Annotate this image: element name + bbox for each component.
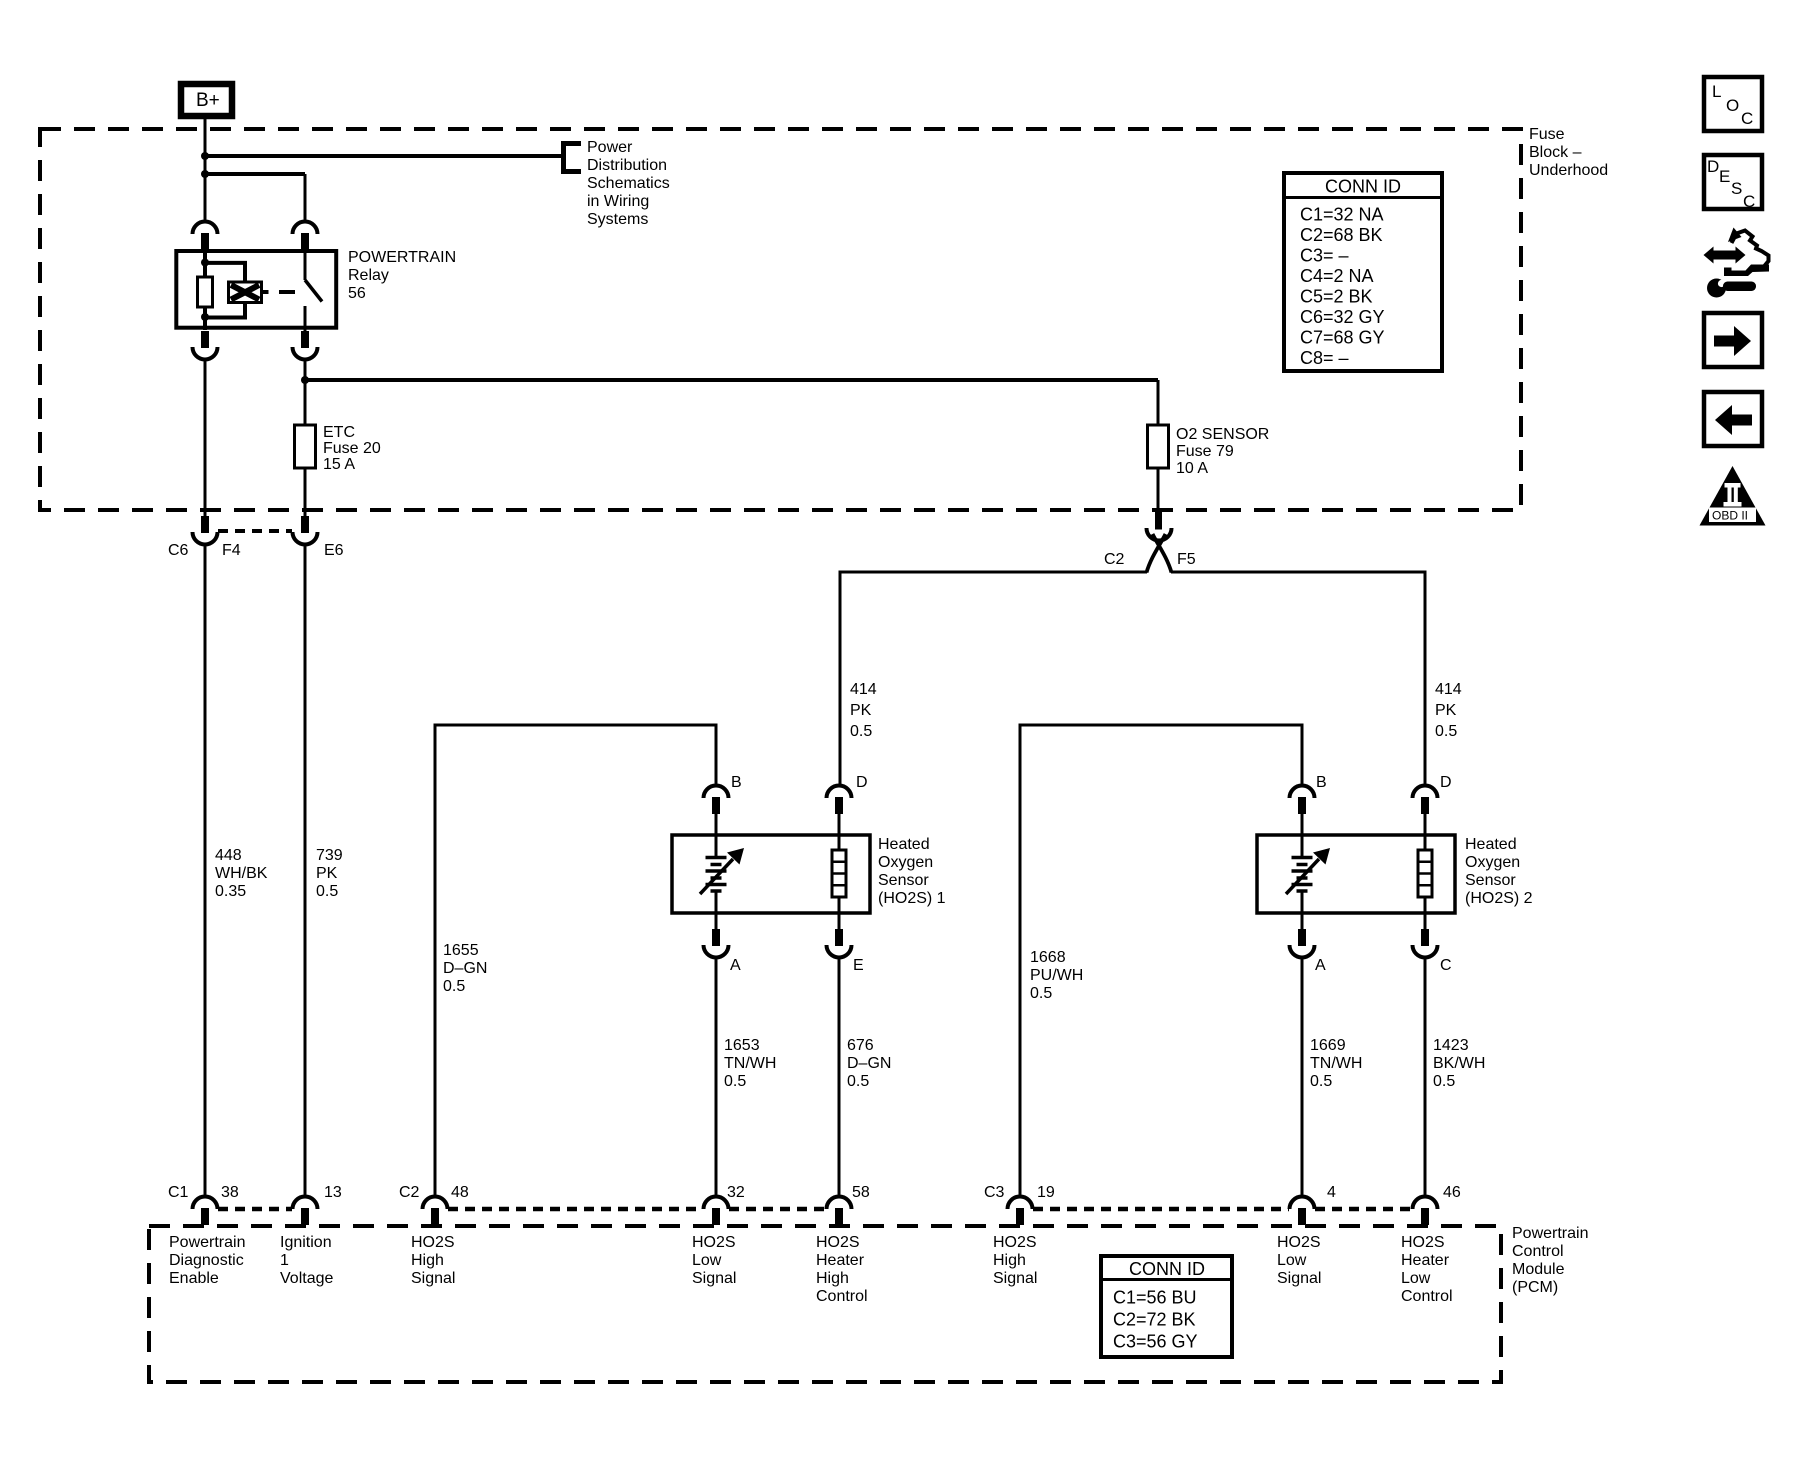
label HO2S Heater High Control (58): [816, 1234, 868, 1305]
wire to relay switch input: [205, 172, 305, 176]
label 448 WH/BK 0.35: [215, 847, 268, 900]
svg-text:PK: PK: [316, 865, 338, 882]
svg-text:Sensor: Sensor: [878, 872, 929, 889]
label 414 PK 0.5 left: [850, 681, 877, 740]
label POWERTRAIN Relay 56: [348, 249, 456, 302]
svg-text:4: 4: [1327, 1184, 1336, 1201]
icon LOC box: [1704, 77, 1762, 131]
svg-text:Oxygen: Oxygen: [878, 854, 933, 871]
svg-text:Block –: Block –: [1529, 144, 1582, 161]
label 1423 BK/WH 0.5: [1433, 1037, 1485, 1090]
svg-text:High: High: [411, 1252, 444, 1269]
svg-text:(PCM): (PCM): [1512, 1279, 1558, 1296]
svg-text:0.5: 0.5: [316, 883, 338, 900]
label 1668 PU/WH 0.5: [1030, 949, 1083, 1002]
svg-text:Signal: Signal: [993, 1270, 1037, 1287]
svg-text:0.5: 0.5: [1310, 1073, 1332, 1090]
svg-text:HO2S: HO2S: [411, 1234, 455, 1251]
svg-text:0.5: 0.5: [724, 1073, 746, 1090]
svg-text:Enable: Enable: [169, 1270, 219, 1287]
svg-text:Low: Low: [692, 1252, 722, 1269]
svg-text:Low: Low: [1277, 1252, 1307, 1269]
svg-text:C1=56 BU: C1=56 BU: [1113, 1288, 1197, 1308]
svg-text:HO2S: HO2S: [1401, 1234, 1445, 1251]
wire 1669 TN/WH to PCM pin 4: [1301, 957, 1304, 1197]
label HO2S Low Signal (32): [692, 1234, 736, 1287]
node junction to O2 sensor fuse branch: [301, 376, 309, 384]
svg-text:19: 19: [1037, 1184, 1055, 1201]
svg-text:(HO2S) 2: (HO2S) 2: [1465, 890, 1533, 907]
connector E6: [293, 516, 318, 545]
connector HO2S1 pin E: [827, 929, 852, 958]
wire relay switch output down: [304, 359, 307, 425]
HO2S1 heater element: [832, 850, 846, 897]
svg-text:E: E: [1719, 167, 1730, 186]
wire 739 PK to PCM pin 13: [304, 544, 307, 1197]
svg-text:C3= –: C3= –: [1300, 246, 1349, 266]
relay coil: [229, 282, 262, 303]
node junction to relay switch leg: [201, 170, 209, 178]
PCM connector pin 58: [827, 1197, 852, 1226]
svg-text:D: D: [856, 774, 868, 791]
svg-text:B: B: [1316, 774, 1327, 791]
svg-text:C2: C2: [1104, 551, 1125, 568]
label 1655 D-GN 0.5: [443, 942, 487, 995]
connector relay switch pin (bottom right): [293, 331, 318, 360]
svg-text:Ignition: Ignition: [280, 1234, 332, 1251]
svg-text:676: 676: [847, 1037, 874, 1054]
connector relay coil pin (top left): [193, 222, 218, 251]
svg-text:Oxygen: Oxygen: [1465, 854, 1520, 871]
svg-text:HO2S: HO2S: [692, 1234, 736, 1251]
svg-text:D–GN: D–GN: [443, 960, 487, 977]
connector HO2S2 pin D: [1413, 786, 1438, 815]
svg-text:C3: C3: [984, 1184, 1005, 1201]
wire bracket to relay coil: [205, 263, 245, 318]
svg-text:HO2S: HO2S: [993, 1234, 1037, 1251]
svg-text:739: 739: [316, 847, 343, 864]
svg-text:48: 48: [451, 1184, 469, 1201]
svg-text:A: A: [730, 957, 741, 974]
svg-text:F4: F4: [222, 542, 241, 559]
svg-text:Powertrain: Powertrain: [1512, 1225, 1588, 1242]
connector relay switch pin (top right): [293, 222, 318, 251]
PCM connector pin 32: [704, 1197, 729, 1226]
wire 414 PK left branch to HO2S1 pin D: [840, 572, 1147, 786]
svg-text:0.5: 0.5: [850, 723, 872, 740]
connector HO2S1 pin A: [704, 929, 729, 958]
label HO2S Heater Low Control (46): [1401, 1234, 1453, 1305]
PCM connector pin 4: [1290, 1197, 1315, 1226]
svg-text:D: D: [1707, 157, 1719, 176]
svg-text:32: 32: [727, 1184, 745, 1201]
svg-text:1653: 1653: [724, 1037, 760, 1054]
svg-text:Control: Control: [816, 1288, 868, 1305]
svg-text:C1=32 NA: C1=32 NA: [1300, 205, 1384, 225]
label Heated Oxygen Sensor (HO2S) 2: [1465, 836, 1533, 907]
svg-text:C4=2 NA: C4=2 NA: [1300, 266, 1374, 286]
svg-text:C5=2 BK: C5=2 BK: [1300, 287, 1373, 307]
wire relay coil- down to fuse block connector C6 F4: [204, 359, 207, 516]
svg-text:B+: B+: [196, 90, 220, 111]
svg-text:1423: 1423: [1433, 1037, 1469, 1054]
CONN ID table PCM: [1101, 1256, 1232, 1357]
icon service tools (arrows and wrench): [1704, 228, 1770, 298]
wire stubs into HO2S1: [716, 810, 839, 857]
label 1653 TN/WH 0.5: [724, 1037, 776, 1090]
svg-text:0.5: 0.5: [847, 1073, 869, 1090]
dotted line pins 38-13: [218, 1207, 292, 1212]
svg-text:C7=68 GY: C7=68 GY: [1300, 328, 1385, 348]
svg-text:0.5: 0.5: [1433, 1073, 1455, 1090]
svg-text:Heated: Heated: [878, 836, 930, 853]
label HO2S Low Signal (4): [1277, 1234, 1321, 1287]
node junction to power distribution: [201, 152, 209, 160]
svg-text:Signal: Signal: [692, 1270, 736, 1287]
dotted connector line C6 to E6: [218, 529, 292, 533]
PCM connector pin 46: [1413, 1197, 1438, 1226]
connector HO2S2 pin B: [1290, 786, 1315, 815]
dotted line pins 19-4-46: [1033, 1207, 1412, 1212]
svg-text:in Wiring: in Wiring: [587, 193, 649, 210]
svg-text:C1: C1: [168, 1184, 189, 1201]
svg-text:C6=32 GY: C6=32 GY: [1300, 307, 1385, 327]
connector C2 pin F5: [1147, 511, 1172, 541]
svg-text:D–GN: D–GN: [847, 1055, 891, 1072]
svg-text:ETC: ETC: [323, 424, 355, 441]
svg-text:C2: C2: [399, 1184, 420, 1201]
connector HO2S1 pin B: [704, 786, 729, 815]
connector C6 pin F4: [193, 516, 218, 545]
svg-text:0.5: 0.5: [1435, 723, 1457, 740]
node coil top: [201, 259, 209, 267]
label 1669 TN/WH 0.5: [1310, 1037, 1362, 1090]
svg-text:Fuse: Fuse: [1529, 126, 1565, 143]
svg-text:Power: Power: [587, 139, 633, 156]
svg-text:414: 414: [1435, 681, 1462, 698]
wire relay coil leg internal: [203, 251, 207, 330]
power distribution reference bracket: [564, 144, 582, 172]
wire stubs into HO2S2: [1302, 810, 1425, 857]
PCM connector pin 13: [293, 1197, 318, 1226]
svg-text:CONN ID: CONN ID: [1129, 1259, 1205, 1279]
icon DESC box: [1704, 155, 1762, 211]
icon OBD II triangle: [1700, 466, 1766, 526]
label ETC Fuse 20 15 A: [323, 424, 381, 473]
svg-text:58: 58: [852, 1184, 870, 1201]
svg-text:TN/WH: TN/WH: [1310, 1055, 1362, 1072]
fuse block underhood dashed box: [40, 129, 1521, 510]
svg-text:13: 13: [324, 1184, 342, 1201]
CONN ID table fuse block: [1284, 173, 1442, 371]
svg-text:0.35: 0.35: [215, 883, 246, 900]
wire 1668 PU/WH from PCM pin 19 to HO2S2 pin B: [1020, 725, 1302, 1197]
svg-text:Relay: Relay: [348, 267, 389, 284]
connector HO2S2 pin C: [1413, 929, 1438, 958]
label Fuse Block - Underhood: [1529, 126, 1608, 179]
svg-text:WH/BK: WH/BK: [215, 865, 268, 882]
svg-text:Signal: Signal: [1277, 1270, 1321, 1287]
svg-text:1669: 1669: [1310, 1037, 1346, 1054]
svg-text:Distribution: Distribution: [587, 157, 667, 174]
wires from HO2S2 elements to bottom pins: [1302, 891, 1425, 929]
svg-text:E6: E6: [324, 542, 344, 559]
svg-text:46: 46: [1443, 1184, 1461, 1201]
connector relay coil pin (bottom left): [193, 331, 218, 360]
svg-text:Low: Low: [1401, 1270, 1431, 1287]
icon right arrow box: [1704, 313, 1762, 367]
wire down to O2 sensor fuse: [1157, 380, 1160, 425]
svg-text:Schematics: Schematics: [587, 175, 670, 192]
svg-text:C3=56 GY: C3=56 GY: [1113, 1332, 1198, 1352]
wire to power distribution schematics: [205, 154, 563, 158]
wire O2 fuse to connector C2 F5: [1157, 468, 1160, 516]
fuse O2 SENSOR Fuse 79: [1148, 425, 1169, 468]
svg-text:Fuse 20: Fuse 20: [323, 440, 381, 457]
svg-text:B: B: [731, 774, 742, 791]
label 676 D-GN 0.5: [847, 1037, 891, 1090]
label 739 PK 0.5: [316, 847, 343, 900]
heated oxygen sensor 2 box: [1257, 835, 1455, 913]
svg-text:O2 SENSOR: O2 SENSOR: [1176, 426, 1269, 443]
wire 1653 TN/WH to PCM pin 32: [715, 957, 718, 1197]
svg-text:HO2S: HO2S: [1277, 1234, 1321, 1251]
svg-text:10 A: 10 A: [1176, 460, 1208, 477]
svg-text:E: E: [853, 957, 864, 974]
svg-text:High: High: [816, 1270, 849, 1287]
svg-text:Sensor: Sensor: [1465, 872, 1516, 889]
svg-text:Systems: Systems: [587, 211, 648, 228]
splice X legs from C2 F5: [1147, 534, 1172, 573]
powertrain relay box: [176, 251, 336, 328]
svg-text:Heater: Heater: [1401, 1252, 1450, 1269]
svg-text:Signal: Signal: [411, 1270, 455, 1287]
svg-text:HO2S: HO2S: [816, 1234, 860, 1251]
svg-text:High: High: [993, 1252, 1026, 1269]
svg-text:L: L: [1712, 82, 1721, 101]
PCM connector pin 48: [423, 1197, 448, 1226]
connector HO2S1 pin D: [827, 786, 852, 815]
wire branch to O2 sensor fuse: [305, 378, 1158, 382]
heated oxygen sensor 1 box: [672, 835, 870, 913]
svg-text:D: D: [1440, 774, 1452, 791]
label Ignition 1 Voltage: [280, 1234, 333, 1287]
label Powertrain Diagnostic Enable: [169, 1234, 245, 1287]
svg-text:Voltage: Voltage: [280, 1270, 333, 1287]
svg-text:Diagnostic: Diagnostic: [169, 1252, 244, 1269]
svg-text:Heater: Heater: [816, 1252, 865, 1269]
svg-text:BK/WH: BK/WH: [1433, 1055, 1485, 1072]
wire coil stub and dash to switch: [262, 290, 296, 294]
svg-text:OBD II: OBD II: [1712, 509, 1748, 523]
svg-text:38: 38: [221, 1184, 239, 1201]
wire 1423 BK/WH to PCM pin 46: [1424, 957, 1427, 1197]
svg-text:C2=72 BK: C2=72 BK: [1113, 1310, 1196, 1330]
PCM connector pin 19: [1008, 1197, 1033, 1226]
svg-text:414: 414: [850, 681, 877, 698]
svg-text:PK: PK: [850, 702, 872, 719]
wires from HO2S1 elements to bottom pins: [716, 891, 839, 929]
HO2S2 heater element: [1418, 850, 1432, 897]
relay switch: [305, 250, 322, 331]
fuse ETC Fuse 20: [295, 425, 316, 468]
svg-text:A: A: [1315, 957, 1326, 974]
label O2 SENSOR Fuse 79 10 A: [1176, 426, 1269, 477]
svg-text:1668: 1668: [1030, 949, 1066, 966]
svg-text:PK: PK: [1435, 702, 1457, 719]
label HO2S High Signal (C3-19): [993, 1234, 1037, 1287]
svg-text:C: C: [1743, 192, 1755, 211]
svg-text:Module: Module: [1512, 1261, 1565, 1278]
icon left arrow box: [1704, 392, 1762, 446]
svg-text:0.5: 0.5: [443, 978, 465, 995]
label 414 PK 0.5 right: [1435, 681, 1462, 740]
svg-text:S: S: [1731, 179, 1742, 198]
HO2S2 sensing element (variable cell): [1286, 848, 1330, 894]
svg-text:448: 448: [215, 847, 242, 864]
HO2S1 sensing element (variable cell): [700, 848, 744, 894]
label Power Distribution Schematics in Wiring Systems: [587, 139, 670, 228]
svg-text:C8= –: C8= –: [1300, 348, 1349, 368]
svg-text:(HO2S) 1: (HO2S) 1: [878, 890, 946, 907]
wire 414 PK right branch to HO2S2 pin D: [1171, 572, 1425, 786]
wire 448 WH/BK to PCM pin 38: [204, 544, 207, 1197]
svg-text:O: O: [1726, 96, 1739, 115]
svg-text:1655: 1655: [443, 942, 479, 959]
node coil bottom: [201, 313, 209, 321]
label Heated Oxygen Sensor (HO2S) 1: [878, 836, 946, 907]
svg-text:Powertrain: Powertrain: [169, 1234, 245, 1251]
connector HO2S2 pin A: [1290, 929, 1315, 958]
svg-text:F5: F5: [1177, 551, 1196, 568]
wire ETC fuse to connector E6: [304, 468, 307, 516]
svg-text:C: C: [1741, 109, 1753, 128]
svg-text:1: 1: [280, 1252, 289, 1269]
svg-text:TN/WH: TN/WH: [724, 1055, 776, 1072]
svg-text:Fuse 79: Fuse 79: [1176, 443, 1234, 460]
label HO2S High Signal (C2-48): [411, 1234, 455, 1287]
svg-text:CONN ID: CONN ID: [1325, 177, 1401, 197]
svg-text:Underhood: Underhood: [1529, 162, 1608, 179]
wire 1655 D-GN from PCM pin 48 to HO2S1 pin B: [435, 725, 716, 1197]
svg-text:56: 56: [348, 285, 366, 302]
PCM connector pin 38: [193, 1197, 218, 1226]
label Powertrain Control Module (PCM): [1512, 1225, 1588, 1296]
svg-text:Control: Control: [1401, 1288, 1453, 1305]
svg-text:Control: Control: [1512, 1243, 1564, 1260]
svg-text:POWERTRAIN: POWERTRAIN: [348, 249, 456, 266]
svg-text:15 A: 15 A: [323, 456, 355, 473]
svg-text:Heated: Heated: [1465, 836, 1517, 853]
svg-text:C6: C6: [168, 542, 189, 559]
svg-text:C: C: [1440, 957, 1452, 974]
dotted line pins 48-32-58: [448, 1207, 826, 1212]
svg-text:PU/WH: PU/WH: [1030, 967, 1083, 984]
PCM dashed box: [149, 1226, 1501, 1382]
wire 676 D-GN to PCM pin 58: [838, 957, 841, 1197]
svg-text:0.5: 0.5: [1030, 985, 1052, 1002]
battery positive terminal B+: [181, 84, 232, 116]
wire from B+ down to relay: [204, 118, 207, 222]
svg-text:C2=68 BK: C2=68 BK: [1300, 225, 1383, 245]
relay suppression resistor: [198, 277, 213, 307]
